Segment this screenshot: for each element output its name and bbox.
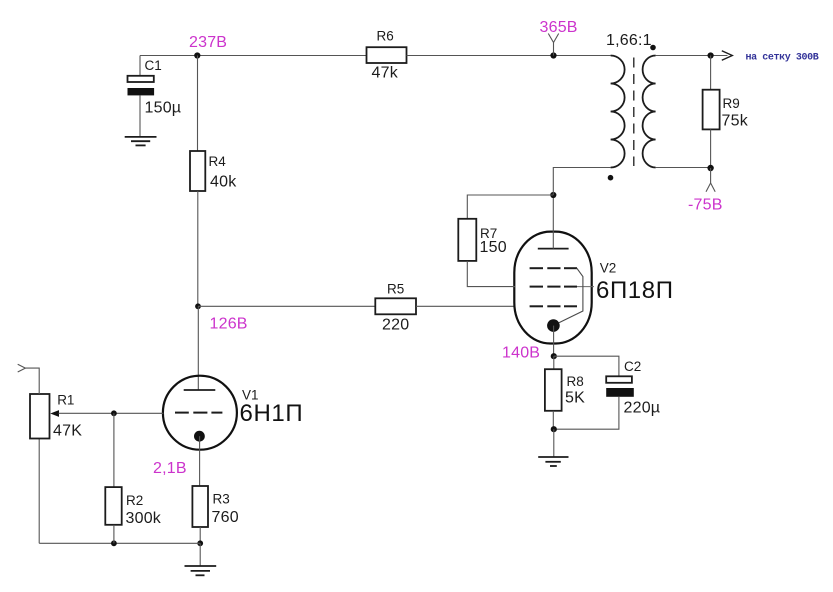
svg-text:760: 760 (212, 509, 239, 526)
wire R9 to -75B node (710, 129, 712, 168)
svg-text:6Н1П: 6Н1П (240, 400, 304, 427)
svg-text:237В: 237В (189, 34, 227, 51)
transformer phase dot secondary (650, 45, 656, 51)
resistor R9 (703, 90, 749, 130)
ground under R3 (185, 543, 217, 575)
svg-text:126В: 126В (210, 316, 248, 333)
pentode V2 (514, 232, 673, 344)
wire R2 to bottom rail (113, 525, 115, 544)
wire R5 to V2 grid1 (416, 305, 515, 307)
svg-text:2,1В: 2,1В (153, 460, 187, 477)
resistor R5 (375, 281, 416, 333)
svg-text:300k: 300k (126, 510, 162, 527)
node output (708, 52, 714, 58)
resistor R8 (545, 369, 585, 411)
svg-text:150: 150 (480, 239, 507, 256)
wire node 140B to R8 (553, 356, 555, 369)
svg-text:75k: 75k (722, 112, 749, 129)
resistor R6 (367, 29, 407, 82)
wire secondary top to output (656, 55, 728, 57)
svg-text:5K: 5K (565, 389, 585, 406)
wire R8 to ground node (552, 411, 554, 429)
node V2 anode / R7 / transformer (550, 192, 556, 198)
transformer phase dot primary (608, 175, 614, 181)
node R3 bottom (197, 540, 203, 546)
node 140B (502, 345, 557, 362)
svg-text:V2: V2 (600, 260, 617, 275)
wire secondary bottom to -75B node (656, 167, 711, 169)
wire B+ rail left segment (140, 55, 367, 57)
wire R1 bottom leg (38, 439, 40, 544)
svg-text:R4: R4 (209, 154, 227, 169)
wire V1 cathode to R3 (199, 436, 201, 486)
wire output node to R9 (710, 56, 712, 90)
svg-text:6П18П: 6П18П (596, 277, 674, 304)
wire node237 to R4 (197, 56, 199, 152)
wire node 140B to C2 (554, 356, 619, 376)
svg-text:140В: 140В (502, 345, 540, 362)
wire node to R7 (467, 195, 553, 219)
potentiometer R1 (30, 392, 82, 439)
wire node to R2 (113, 413, 115, 487)
svg-text:R8: R8 (567, 374, 584, 389)
wire primary bottom to anode node (553, 168, 610, 196)
svg-text:R2: R2 (126, 493, 143, 508)
wire V2 cathode to node 140B (553, 326, 555, 357)
wire V2 anode (552, 195, 554, 249)
svg-text:R5: R5 (387, 281, 404, 296)
capacitor C1 (128, 56, 182, 137)
resistor R4 (190, 151, 237, 191)
transformer primary winding (611, 56, 625, 168)
svg-text:R9: R9 (723, 96, 740, 111)
wire R4 to node 126B (197, 191, 199, 306)
svg-text:R3: R3 (213, 492, 230, 507)
node R2 bottom (111, 540, 117, 546)
node 237B (189, 34, 227, 59)
wire C2 to cathode ground node (554, 397, 619, 429)
svg-text:47K: 47K (53, 423, 82, 440)
svg-text:150µ: 150µ (145, 100, 182, 117)
svg-text:C1: C1 (145, 58, 162, 73)
wire bottom rail (39, 542, 200, 544)
wire R3 to bottom node (199, 527, 201, 543)
svg-text:C2: C2 (624, 359, 641, 374)
svg-text:40k: 40k (210, 174, 237, 191)
node 126B (195, 303, 248, 332)
wire R1 wiper to V1 grid (59, 412, 164, 414)
resistor R7 (458, 219, 506, 261)
triode V1 (163, 376, 303, 450)
svg-text:R1: R1 (57, 392, 74, 407)
ground under C1 (125, 137, 157, 146)
capacitor C2 (606, 359, 660, 416)
svg-text:220µ: 220µ (624, 399, 661, 416)
ground under R8 (538, 429, 568, 466)
svg-text:на сетку 300В: на сетку 300В (746, 52, 819, 63)
resistor R3 (192, 486, 238, 527)
resistor R2 (105, 487, 161, 527)
svg-text:-75В: -75В (688, 196, 723, 213)
svg-text:R6: R6 (377, 29, 394, 44)
wire node 126B to R5 (198, 305, 375, 307)
svg-text:365В: 365В (540, 19, 578, 36)
node R8/C2 ground junction (551, 426, 557, 432)
svg-text:47k: 47k (372, 65, 399, 82)
svg-text:220: 220 (382, 317, 409, 334)
svg-text:1,66:1: 1,66:1 (606, 32, 652, 49)
node -75B probe (688, 165, 723, 214)
input terminal (18, 364, 40, 394)
node V1 grid / R2 (111, 410, 117, 416)
wire R7 to V2 grid2 (467, 261, 515, 287)
transformer secondary winding (643, 56, 656, 168)
output arrow (722, 51, 733, 61)
transformer core (633, 58, 635, 167)
node 365B probe (540, 19, 578, 58)
wire node 126B to V1 anode (197, 306, 199, 390)
wire R6 to transformer primary (407, 55, 611, 57)
